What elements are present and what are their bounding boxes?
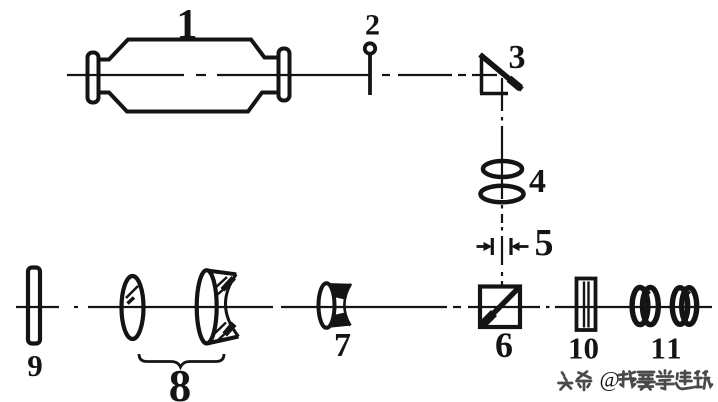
svg-text:2: 2 (365, 9, 380, 42)
svg-text:@: @ (600, 367, 620, 392)
svg-text:1: 1 (177, 2, 198, 48)
svg-text:7: 7 (334, 327, 351, 364)
svg-text:5: 5 (535, 222, 554, 264)
svg-text:6: 6 (495, 325, 513, 365)
svg-text:9: 9 (27, 348, 43, 383)
svg-text:3: 3 (509, 39, 526, 76)
svg-text:4: 4 (529, 163, 546, 200)
svg-text:8: 8 (169, 361, 192, 402)
svg-text:10: 10 (568, 331, 599, 366)
svg-text:11: 11 (650, 331, 683, 366)
